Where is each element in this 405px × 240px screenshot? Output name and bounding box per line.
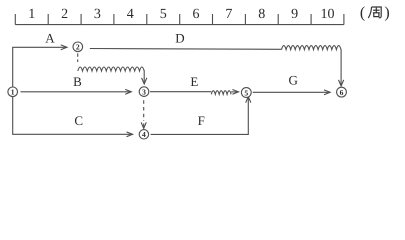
svg-text:6: 6 [340,88,344,97]
svg-text:3: 3 [94,7,101,22]
svg-text:4: 4 [127,7,134,22]
activity labels [45,30,298,128]
arrowhead G into node 6 [324,90,330,95]
timescale ticks [15,14,344,25]
svg-text:2: 2 [76,43,80,52]
wire A: from node 1 up then right [13,47,67,86]
svg-text:5: 5 [160,7,167,22]
dummy link below node 2 (dashed) [77,53,79,62]
arrowhead E into node 5 [232,90,238,95]
svg-text:5: 5 [244,88,248,97]
svg-text:8: 8 [258,7,265,22]
svg-text:10: 10 [321,7,335,22]
svg-text:D: D [175,31,184,46]
wire B from node 1 to node 3 [21,91,132,93]
wire C: from node 1 down then right to node 4 [13,97,133,134]
svg-text:): ) [384,4,389,21]
svg-text:6: 6 [193,7,200,22]
svg-text:A: A [45,30,55,45]
node 6 circle [337,87,347,97]
wire F from node 4 right then up into node 5 [151,97,249,135]
svg-text:E: E [190,74,198,89]
timescale numbers 1-10 [28,7,334,22]
svg-text:G: G [289,72,298,87]
arrowhead D into node 6 top [339,80,344,86]
node digits [11,43,344,140]
svg-text:9: 9 [291,7,298,22]
node 3 circle [139,87,149,97]
svg-text:(: ( [360,4,365,21]
wire E short lead to arrow [231,91,238,93]
unit label CJK glyph zhou (week) drawn as strokes [368,7,381,18]
wire E wavy part [211,91,231,95]
arrowhead A into node 2 [61,45,67,50]
svg-text:4: 4 [142,130,146,139]
dummy link node 3 to node 4 (dashed) [143,100,145,121]
vertical drop into node 3 [143,70,145,84]
wire G from node 5 to node 6 [253,91,330,93]
arrowhead B into node 3 [125,89,131,94]
arrowhead into node 3 top [142,78,147,84]
svg-text:2: 2 [61,7,68,22]
node 4 circle [139,130,148,139]
svg-text:B: B [73,74,82,89]
svg-text:1: 1 [28,7,35,22]
timescale baseline [15,24,344,26]
wavy float line from node 2 toward node 3 [78,67,144,71]
svg-text:F: F [198,113,205,128]
node 5 circle [241,88,251,98]
node 1 circle [8,87,18,97]
arrowhead C into node 4 [127,132,133,137]
svg-text:C: C [74,113,83,128]
wire D corner down into node 6 [340,49,342,86]
dummy arrow lead [143,123,145,128]
arrowhead F up into node 5 bottom [246,97,251,103]
svg-text:7: 7 [225,7,232,22]
unit label (week) parentheses [360,4,390,21]
arrowhead into node 4 top [141,122,146,128]
svg-text:3: 3 [142,87,146,96]
svg-text:1: 1 [11,88,15,97]
node 2 circle [73,42,83,52]
wire D solid from node 2 [90,48,282,51]
wire E solid from node 3 [150,91,211,93]
wire D wavy free-float part [282,46,342,50]
